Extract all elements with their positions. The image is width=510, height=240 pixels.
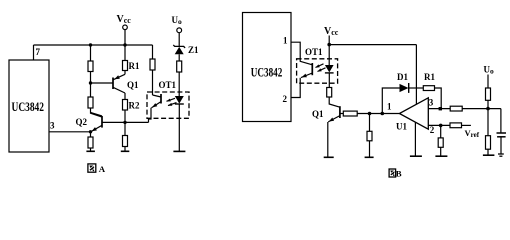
resistor R1 figA bbox=[123, 61, 128, 71]
wire feedback riser bbox=[382, 88, 399, 114]
wire to Q2 collector bbox=[91, 108, 103, 117]
node pin2 junction bbox=[439, 124, 443, 128]
wire resistor to ground bbox=[124, 147, 126, 152]
wire resistor to Uo node bbox=[462, 108, 501, 110]
wire pin2 rail bbox=[428, 124, 450, 126]
svg-text:Q1: Q1 bbox=[127, 80, 139, 90]
transistor Q1 figB (NPN) bbox=[328, 106, 340, 157]
wire top rail figA bbox=[34, 44, 153, 46]
svg-text:B: B bbox=[396, 169, 402, 179]
wire Uo node down bbox=[487, 109, 489, 136]
wire base resistor to U1 output bbox=[357, 113, 399, 115]
ground bar Q1 emitter figB bbox=[324, 156, 334, 158]
resistor to ground x=369.5 bbox=[367, 131, 372, 141]
IC U-B UC3842 box bbox=[243, 13, 292, 122]
svg-text:R1: R1 bbox=[129, 61, 140, 71]
ground bar U1 bbox=[410, 155, 422, 157]
wire resistor to ground bbox=[440, 147, 442, 156]
svg-text:OT1: OT1 bbox=[159, 80, 177, 90]
wire Q1 collector to R2 bbox=[124, 93, 126, 100]
caption 图B bbox=[389, 169, 402, 179]
wire Uo stub figB bbox=[487, 75, 489, 89]
transistor Q1 (PNP) bbox=[91, 74, 126, 93]
svg-text:Vcc: Vcc bbox=[324, 26, 339, 37]
ground bar x=369.5 bbox=[365, 156, 374, 158]
wire resistor into opto box bbox=[152, 70, 154, 95]
resistor below Uo node bbox=[486, 136, 491, 150]
svg-text:A: A bbox=[99, 164, 106, 174]
resistor Q1 base figB bbox=[343, 111, 357, 116]
wire R1 to pin3 node bbox=[435, 88, 442, 109]
wire divider upper lead bbox=[90, 45, 92, 61]
wire Vcc stub figB bbox=[328, 36, 330, 45]
svg-text:3: 3 bbox=[50, 121, 55, 131]
wire node down to resistor bbox=[124, 122, 126, 135]
wire resistor to Q1 collector bbox=[329, 97, 340, 107]
opto LED figA bbox=[175, 72, 184, 151]
optocoupler OT1 dashed box figA bbox=[147, 92, 189, 118]
opto light arrows figB bbox=[315, 64, 325, 72]
wire pin 3 bbox=[49, 131, 91, 133]
ground bar under LED figA bbox=[173, 150, 185, 152]
wire pin3 rail bbox=[428, 108, 450, 110]
Vcc terminal circle figA bbox=[123, 25, 128, 30]
node junction x=125 base rail bbox=[123, 121, 126, 124]
op-amp U1 triangle bbox=[399, 98, 428, 129]
diode D1 bbox=[400, 83, 409, 93]
ground bar under x=90.5 bbox=[86, 150, 95, 152]
wire U1 ground stub bbox=[414, 122, 416, 156]
capacitor C figB bbox=[497, 133, 507, 154]
svg-text:Uo: Uo bbox=[484, 65, 495, 76]
node junction at x=125 top rail bbox=[123, 43, 126, 46]
wire resistor to ground bbox=[487, 149, 489, 155]
ground small under capacitor bbox=[498, 154, 504, 156]
opto light arrows figA bbox=[166, 98, 176, 105]
wire Q1 base bbox=[340, 113, 343, 115]
svg-text:R1: R1 bbox=[424, 72, 435, 82]
opto LED figB bbox=[325, 45, 334, 88]
wire D1 to R1 bbox=[409, 87, 424, 89]
pin 7 stub bbox=[33, 45, 35, 60]
svg-text:U1: U1 bbox=[396, 122, 407, 132]
svg-text:R2: R2 bbox=[129, 101, 140, 111]
node junction x=369.5 bbox=[368, 112, 372, 116]
wire capacitor branch bbox=[500, 109, 502, 133]
svg-text:1: 1 bbox=[283, 36, 288, 46]
wire resistor to ground bbox=[90, 148, 92, 151]
svg-text:3: 3 bbox=[429, 98, 434, 108]
svg-text:D1: D1 bbox=[397, 72, 408, 82]
svg-text:OT1: OT1 bbox=[305, 47, 323, 57]
wire pin2 node down bbox=[440, 125, 442, 137]
wire down to resistor bbox=[369, 114, 371, 132]
optocoupler OT1 dashed box figB bbox=[297, 59, 338, 83]
node feedback junction bbox=[439, 107, 442, 110]
opto phototransistor figB bbox=[300, 59, 312, 83]
svg-text:2: 2 bbox=[283, 94, 288, 104]
wire R1 to Q1 emitter bbox=[124, 71, 126, 75]
resistor divider-bottom figA bbox=[88, 97, 93, 108]
node Uo junction bbox=[486, 107, 490, 111]
resistor pin2 rail figB bbox=[450, 123, 462, 128]
wire base rail Q2 to opto emitter bbox=[102, 121, 149, 123]
svg-text:UC3842: UC3842 bbox=[251, 64, 282, 79]
resistor R2 figA bbox=[123, 100, 128, 111]
wire pin 1 to opto collector bbox=[291, 42, 300, 59]
resistor pin3 rail figB bbox=[450, 106, 462, 111]
wire node to resistor bbox=[90, 132, 92, 137]
wire divider middle bbox=[90, 72, 92, 98]
transistor Q2 (NPN) bbox=[91, 113, 103, 132]
ground bar x=440.7 bbox=[435, 155, 447, 157]
wire Uo stub bbox=[178, 33, 180, 46]
wire R1 upper lead bbox=[124, 45, 126, 61]
svg-text:Q1: Q1 bbox=[312, 109, 324, 119]
wire resistor to node bbox=[487, 100, 489, 108]
svg-text:2: 2 bbox=[430, 125, 435, 135]
resistor Uo figB bbox=[486, 88, 491, 100]
node junction at x=90 top rail bbox=[89, 43, 92, 46]
resistor R1 figB bbox=[423, 86, 434, 91]
resistor under LED figB bbox=[327, 88, 332, 98]
resistor below pin2 node bbox=[438, 138, 443, 147]
svg-text:Q2: Q2 bbox=[76, 117, 88, 127]
IC U-A UC3842 box bbox=[9, 60, 49, 152]
node base tap Q1 bbox=[89, 81, 92, 84]
wire Vcc rail figB bbox=[329, 44, 416, 46]
node junction output bbox=[381, 112, 385, 116]
ground bar x=488 bbox=[483, 154, 495, 156]
wire opto collector riser bbox=[152, 45, 154, 59]
Uo terminal circle figA bbox=[177, 28, 182, 33]
zener Z1 bbox=[173, 45, 185, 61]
resistor lower-right figA bbox=[123, 136, 128, 147]
svg-text:Vcc: Vcc bbox=[117, 14, 132, 25]
svg-text:UC3842: UC3842 bbox=[12, 99, 45, 114]
node pin3 emitter junction bbox=[89, 130, 92, 133]
svg-text:Z1: Z1 bbox=[188, 45, 199, 55]
ground bar under x=125 bbox=[121, 150, 130, 152]
wire resistor to ground bbox=[369, 141, 371, 157]
wire pin 2 to opto emitter bbox=[291, 83, 300, 97]
resistor Q2-emitter figA bbox=[88, 137, 93, 148]
svg-text:1: 1 bbox=[387, 102, 392, 112]
wire U1 positive supply bbox=[415, 45, 417, 105]
resistor below Z1 figA bbox=[177, 61, 182, 72]
wire resistor to Vref end bbox=[462, 124, 471, 126]
wire Vcc stub figA bbox=[124, 30, 126, 45]
svg-text:7: 7 bbox=[36, 47, 41, 57]
svg-text:Uo: Uo bbox=[172, 15, 183, 26]
resistor divider-top figA bbox=[88, 61, 93, 72]
caption 图A bbox=[88, 164, 106, 174]
resistor opto-collector figA bbox=[150, 59, 155, 70]
node Vcc junction figB bbox=[327, 43, 331, 47]
wire R2 to node bbox=[124, 110, 126, 122]
opto phototransistor figA bbox=[149, 94, 162, 122]
